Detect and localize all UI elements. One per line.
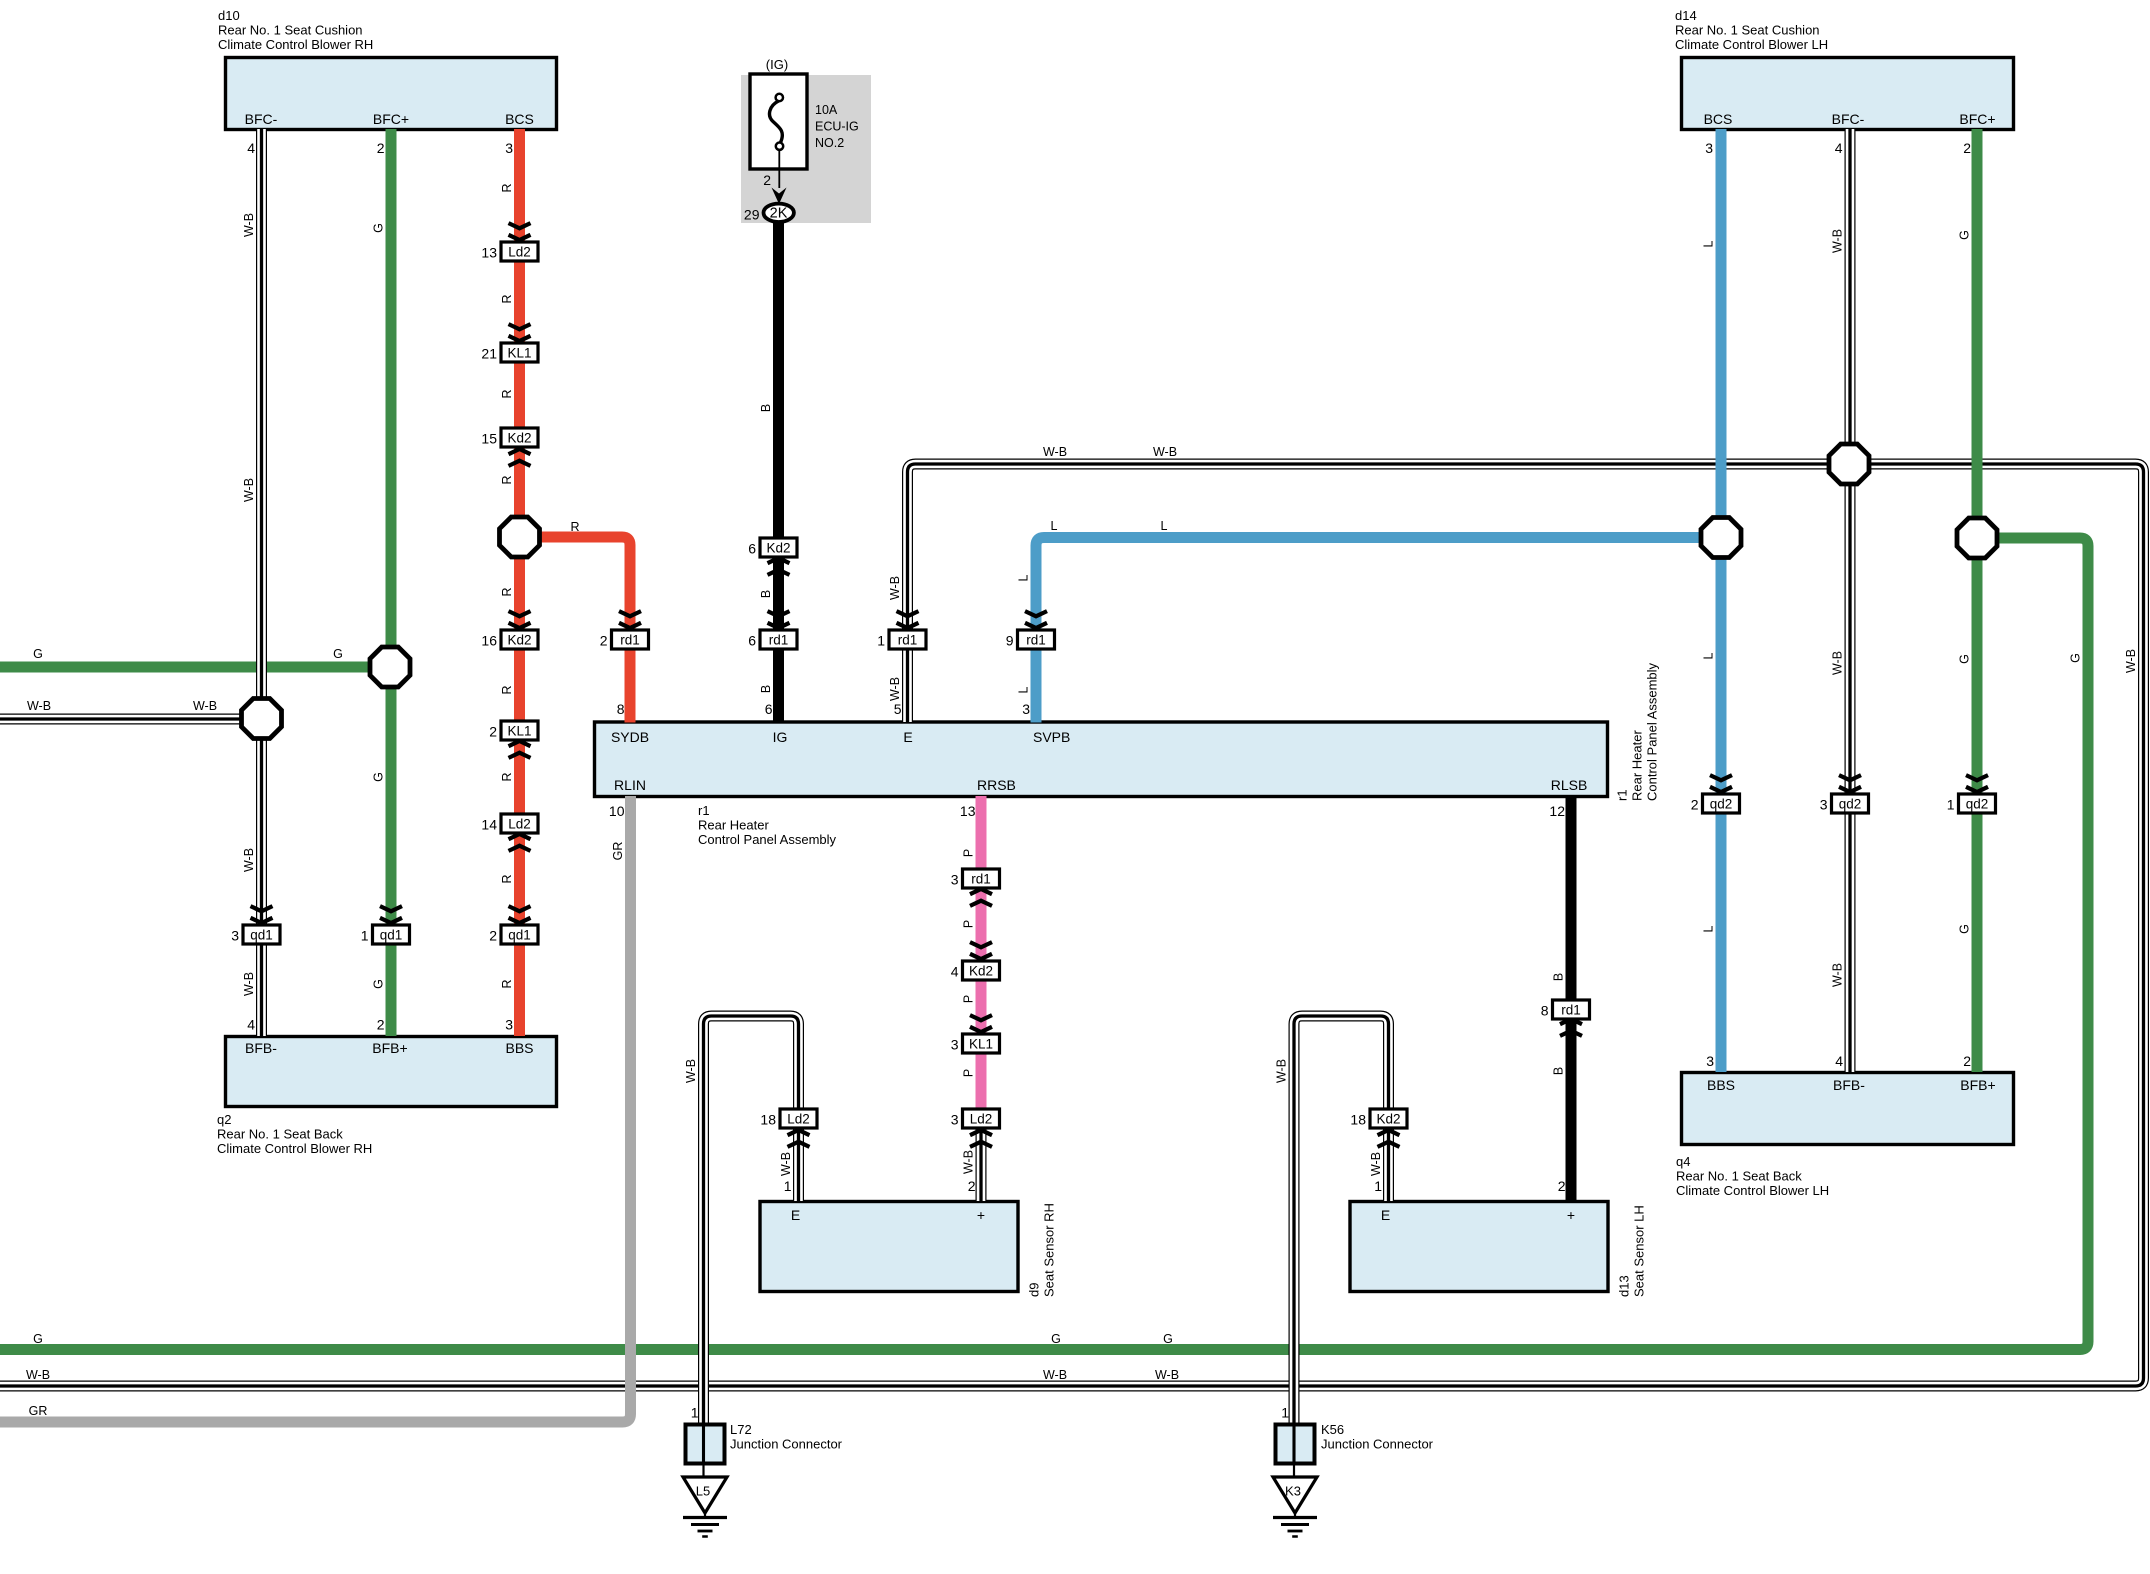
svg-text:Rear Heater: Rear Heater	[698, 818, 769, 833]
svg-text:2: 2	[489, 723, 497, 739]
svg-text:W-B: W-B	[962, 1150, 976, 1174]
svg-text:Rear No. 1 Seat Cushion: Rear No. 1 Seat Cushion	[1675, 23, 1820, 38]
svg-text:1: 1	[1947, 796, 1955, 812]
svg-text:Kd2: Kd2	[507, 633, 531, 648]
svg-text:2: 2	[377, 140, 385, 156]
svg-text:G: G	[1958, 924, 1972, 934]
svg-text:rd1: rd1	[769, 633, 789, 648]
svg-text:L: L	[1702, 925, 1716, 932]
svg-text:G: G	[33, 1332, 43, 1346]
svg-text:+: +	[1567, 1207, 1575, 1223]
svg-text:Rear No. 1 Seat Cushion: Rear No. 1 Seat Cushion	[218, 23, 363, 38]
svg-text:G: G	[372, 223, 386, 233]
svg-text:15: 15	[481, 430, 497, 446]
svg-text:E: E	[1381, 1207, 1390, 1223]
svg-text:GR: GR	[611, 842, 625, 861]
svg-text:Ld2: Ld2	[787, 1112, 810, 1127]
svg-text:W-B: W-B	[26, 1368, 50, 1382]
svg-text:3: 3	[231, 927, 239, 943]
svg-text:G: G	[33, 647, 43, 661]
svg-text:KL1: KL1	[507, 724, 531, 739]
svg-text:13: 13	[960, 803, 976, 819]
svg-text:16: 16	[481, 632, 497, 648]
svg-text:BCS: BCS	[1704, 111, 1733, 127]
svg-text:d14: d14	[1675, 8, 1697, 23]
svg-text:L: L	[1017, 574, 1031, 581]
svg-text:29: 29	[744, 207, 760, 223]
svg-text:BFB-: BFB-	[245, 1040, 277, 1056]
svg-text:18: 18	[760, 1111, 776, 1127]
svg-text:2: 2	[1691, 796, 1699, 812]
svg-text:d9: d9	[1027, 1283, 1042, 1297]
svg-text:2: 2	[377, 1017, 385, 1033]
svg-text:W-B: W-B	[1831, 229, 1845, 253]
svg-text:4: 4	[1835, 1053, 1843, 1069]
svg-text:3: 3	[1705, 140, 1713, 156]
svg-text:Climate Control Blower RH: Climate Control Blower RH	[218, 37, 373, 52]
svg-text:Kd2: Kd2	[507, 431, 531, 446]
svg-text:21: 21	[481, 345, 497, 361]
svg-text:rd1: rd1	[1026, 633, 1046, 648]
svg-text:R: R	[500, 475, 514, 484]
svg-text:BFC-: BFC-	[1832, 111, 1865, 127]
svg-text:E: E	[791, 1207, 800, 1223]
svg-text:Kd2: Kd2	[969, 964, 993, 979]
svg-text:14: 14	[481, 816, 497, 832]
svg-text:4: 4	[951, 963, 959, 979]
svg-text:W-B: W-B	[779, 1152, 793, 1176]
svg-text:W-B: W-B	[27, 699, 51, 713]
svg-text:18: 18	[1350, 1111, 1366, 1127]
svg-text:G: G	[1958, 654, 1972, 664]
svg-text:r1: r1	[698, 803, 710, 818]
svg-text:8: 8	[617, 701, 625, 717]
svg-text:8: 8	[1541, 1002, 1549, 1018]
svg-text:G: G	[372, 772, 386, 782]
svg-text:W-B: W-B	[242, 213, 256, 237]
svg-text:Rear Heater: Rear Heater	[1630, 730, 1645, 801]
svg-text:W-B: W-B	[888, 677, 902, 701]
svg-text:Climate Control Blower LH: Climate Control Blower LH	[1675, 37, 1828, 52]
svg-text:RLSB: RLSB	[1551, 777, 1588, 793]
svg-text:W-B: W-B	[1831, 963, 1845, 987]
svg-text:SVPB: SVPB	[1033, 729, 1070, 745]
svg-text:ECU-IG: ECU-IG	[815, 120, 859, 134]
svg-text:d13: d13	[1617, 1275, 1632, 1297]
svg-text:B: B	[759, 685, 773, 693]
svg-text:rd1: rd1	[620, 633, 640, 648]
svg-text:6: 6	[748, 632, 756, 648]
svg-text:IG: IG	[773, 729, 788, 745]
svg-text:L: L	[1161, 519, 1168, 533]
svg-text:10A: 10A	[815, 103, 838, 117]
svg-text:L5: L5	[696, 1484, 710, 1499]
svg-text:r1: r1	[1615, 789, 1630, 801]
svg-text:6: 6	[748, 540, 756, 556]
svg-text:10: 10	[609, 803, 625, 819]
svg-text:qd1: qd1	[250, 928, 273, 943]
svg-text:W-B: W-B	[1153, 445, 1177, 459]
svg-text:BFC-: BFC-	[245, 111, 278, 127]
svg-text:B: B	[759, 590, 773, 598]
svg-text:R: R	[500, 183, 514, 192]
svg-text:Seat Sensor RH: Seat Sensor RH	[1042, 1203, 1057, 1297]
svg-text:3: 3	[951, 871, 959, 887]
svg-text:2K: 2K	[770, 205, 788, 221]
svg-text:2: 2	[489, 927, 497, 943]
svg-text:BFB+: BFB+	[1960, 1077, 1995, 1093]
svg-text:rd1: rd1	[1561, 1003, 1581, 1018]
svg-text:3: 3	[1820, 796, 1828, 812]
svg-text:3: 3	[505, 1017, 513, 1033]
svg-text:E: E	[903, 729, 912, 745]
svg-text:2: 2	[1963, 140, 1971, 156]
svg-text:3: 3	[505, 140, 513, 156]
svg-text:Rear No. 1 Seat Back: Rear No. 1 Seat Back	[1676, 1169, 1802, 1184]
svg-text:K3: K3	[1285, 1484, 1301, 1499]
svg-text:4: 4	[1835, 140, 1843, 156]
svg-text:qd1: qd1	[508, 928, 531, 943]
svg-text:4: 4	[247, 140, 255, 156]
svg-text:W-B: W-B	[1369, 1152, 1383, 1176]
svg-text:Ld2: Ld2	[970, 1112, 993, 1127]
svg-text:G: G	[1051, 1332, 1061, 1346]
svg-text:qd2: qd2	[1710, 797, 1733, 812]
svg-text:BBS: BBS	[1707, 1077, 1735, 1093]
svg-text:B: B	[1552, 973, 1566, 981]
svg-text:6: 6	[765, 701, 773, 717]
svg-text:Ld2: Ld2	[508, 817, 531, 832]
svg-text:1: 1	[1281, 1405, 1289, 1421]
svg-text:R: R	[500, 979, 514, 988]
svg-text:4: 4	[247, 1017, 255, 1033]
svg-text:BBS: BBS	[505, 1040, 533, 1056]
svg-text:R: R	[500, 874, 514, 883]
svg-text:W-B: W-B	[193, 699, 217, 713]
svg-text:W-B: W-B	[242, 972, 256, 996]
svg-text:Rear No. 1 Seat Back: Rear No. 1 Seat Back	[217, 1127, 343, 1142]
svg-text:G: G	[333, 647, 343, 661]
svg-text:2: 2	[1558, 1178, 1566, 1194]
svg-text:qd2: qd2	[1966, 797, 1989, 812]
svg-text:1: 1	[784, 1178, 792, 1194]
svg-text:RLIN: RLIN	[614, 777, 646, 793]
svg-text:2: 2	[600, 632, 608, 648]
svg-text:R: R	[500, 587, 514, 596]
svg-text:W-B: W-B	[1043, 1368, 1067, 1382]
svg-text:1: 1	[877, 632, 885, 648]
svg-text:2: 2	[763, 172, 771, 188]
svg-text:K56: K56	[1321, 1422, 1344, 1437]
svg-text:G: G	[1958, 230, 1972, 240]
svg-text:L: L	[1017, 686, 1031, 693]
svg-text:GR: GR	[29, 1404, 48, 1418]
svg-text:P: P	[962, 1069, 976, 1077]
svg-text:W-B: W-B	[242, 478, 256, 502]
svg-text:R: R	[500, 389, 514, 398]
svg-text:3: 3	[951, 1111, 959, 1127]
svg-text:BFC+: BFC+	[373, 111, 409, 127]
svg-text:Seat Sensor LH: Seat Sensor LH	[1632, 1205, 1647, 1297]
svg-text:qd1: qd1	[380, 928, 403, 943]
svg-text:3: 3	[1022, 701, 1030, 717]
svg-text:P: P	[962, 849, 976, 857]
svg-text:SYDB: SYDB	[611, 729, 649, 745]
svg-text:q4: q4	[1676, 1154, 1690, 1169]
svg-text:W-B: W-B	[242, 848, 256, 872]
svg-text:rd1: rd1	[971, 872, 991, 887]
svg-text:13: 13	[481, 244, 497, 260]
svg-text:Climate Control Blower RH: Climate Control Blower RH	[217, 1141, 372, 1156]
svg-text:Junction Connector: Junction Connector	[1321, 1437, 1434, 1452]
svg-text:G: G	[372, 979, 386, 989]
svg-text:5: 5	[894, 701, 902, 717]
svg-text:R: R	[500, 772, 514, 781]
svg-text:Kd2: Kd2	[1376, 1112, 1400, 1127]
svg-text:RRSB: RRSB	[977, 777, 1016, 793]
svg-text:G: G	[1163, 1332, 1173, 1346]
svg-text:BFB-: BFB-	[1833, 1077, 1865, 1093]
svg-text:L: L	[1702, 240, 1716, 247]
svg-text:+: +	[977, 1207, 985, 1223]
svg-text:2: 2	[1963, 1053, 1971, 1069]
svg-text:W-B: W-B	[888, 576, 902, 600]
svg-text:W-B: W-B	[1043, 445, 1067, 459]
svg-text:qd2: qd2	[1839, 797, 1862, 812]
svg-text:BCS: BCS	[505, 111, 534, 127]
svg-text:Junction Connector: Junction Connector	[730, 1437, 843, 1452]
svg-text:B: B	[759, 404, 773, 412]
svg-text:R: R	[500, 685, 514, 694]
svg-text:rd1: rd1	[898, 633, 918, 648]
svg-text:1: 1	[361, 927, 369, 943]
svg-text:G: G	[2069, 653, 2083, 663]
svg-text:q2: q2	[217, 1112, 231, 1127]
svg-text:P: P	[962, 995, 976, 1003]
svg-text:9: 9	[1006, 632, 1014, 648]
svg-text:Climate Control Blower LH: Climate Control Blower LH	[1676, 1183, 1829, 1198]
svg-text:(IG): (IG)	[766, 57, 788, 72]
svg-text:W-B: W-B	[684, 1059, 698, 1083]
svg-text:R: R	[570, 520, 579, 534]
svg-text:2: 2	[968, 1178, 976, 1194]
svg-text:BFB+: BFB+	[372, 1040, 407, 1056]
svg-text:d10: d10	[218, 8, 240, 23]
svg-text:Kd2: Kd2	[766, 541, 790, 556]
svg-text:L: L	[1051, 519, 1058, 533]
svg-text:B: B	[1552, 1067, 1566, 1075]
svg-text:W-B: W-B	[1275, 1059, 1289, 1083]
svg-text:R: R	[500, 294, 514, 303]
svg-text:12: 12	[1549, 803, 1565, 819]
svg-text:W-B: W-B	[1155, 1368, 1179, 1382]
svg-text:L: L	[1702, 652, 1716, 659]
svg-text:KL1: KL1	[507, 346, 531, 361]
svg-text:Ld2: Ld2	[508, 245, 531, 260]
svg-text:P: P	[962, 920, 976, 928]
svg-text:Control Panel Assembly: Control Panel Assembly	[698, 832, 837, 847]
svg-text:NO.2: NO.2	[815, 136, 844, 150]
svg-text:1: 1	[1374, 1178, 1382, 1194]
svg-text:W-B: W-B	[1831, 651, 1845, 675]
svg-text:W-B: W-B	[2124, 649, 2138, 673]
svg-text:BFC+: BFC+	[1959, 111, 1995, 127]
svg-text:1: 1	[691, 1405, 699, 1421]
svg-text:3: 3	[951, 1036, 959, 1052]
svg-text:KL1: KL1	[969, 1037, 993, 1052]
svg-text:Control Panel Assembly: Control Panel Assembly	[1645, 662, 1660, 801]
svg-text:L72: L72	[730, 1422, 752, 1437]
svg-text:3: 3	[1706, 1053, 1714, 1069]
